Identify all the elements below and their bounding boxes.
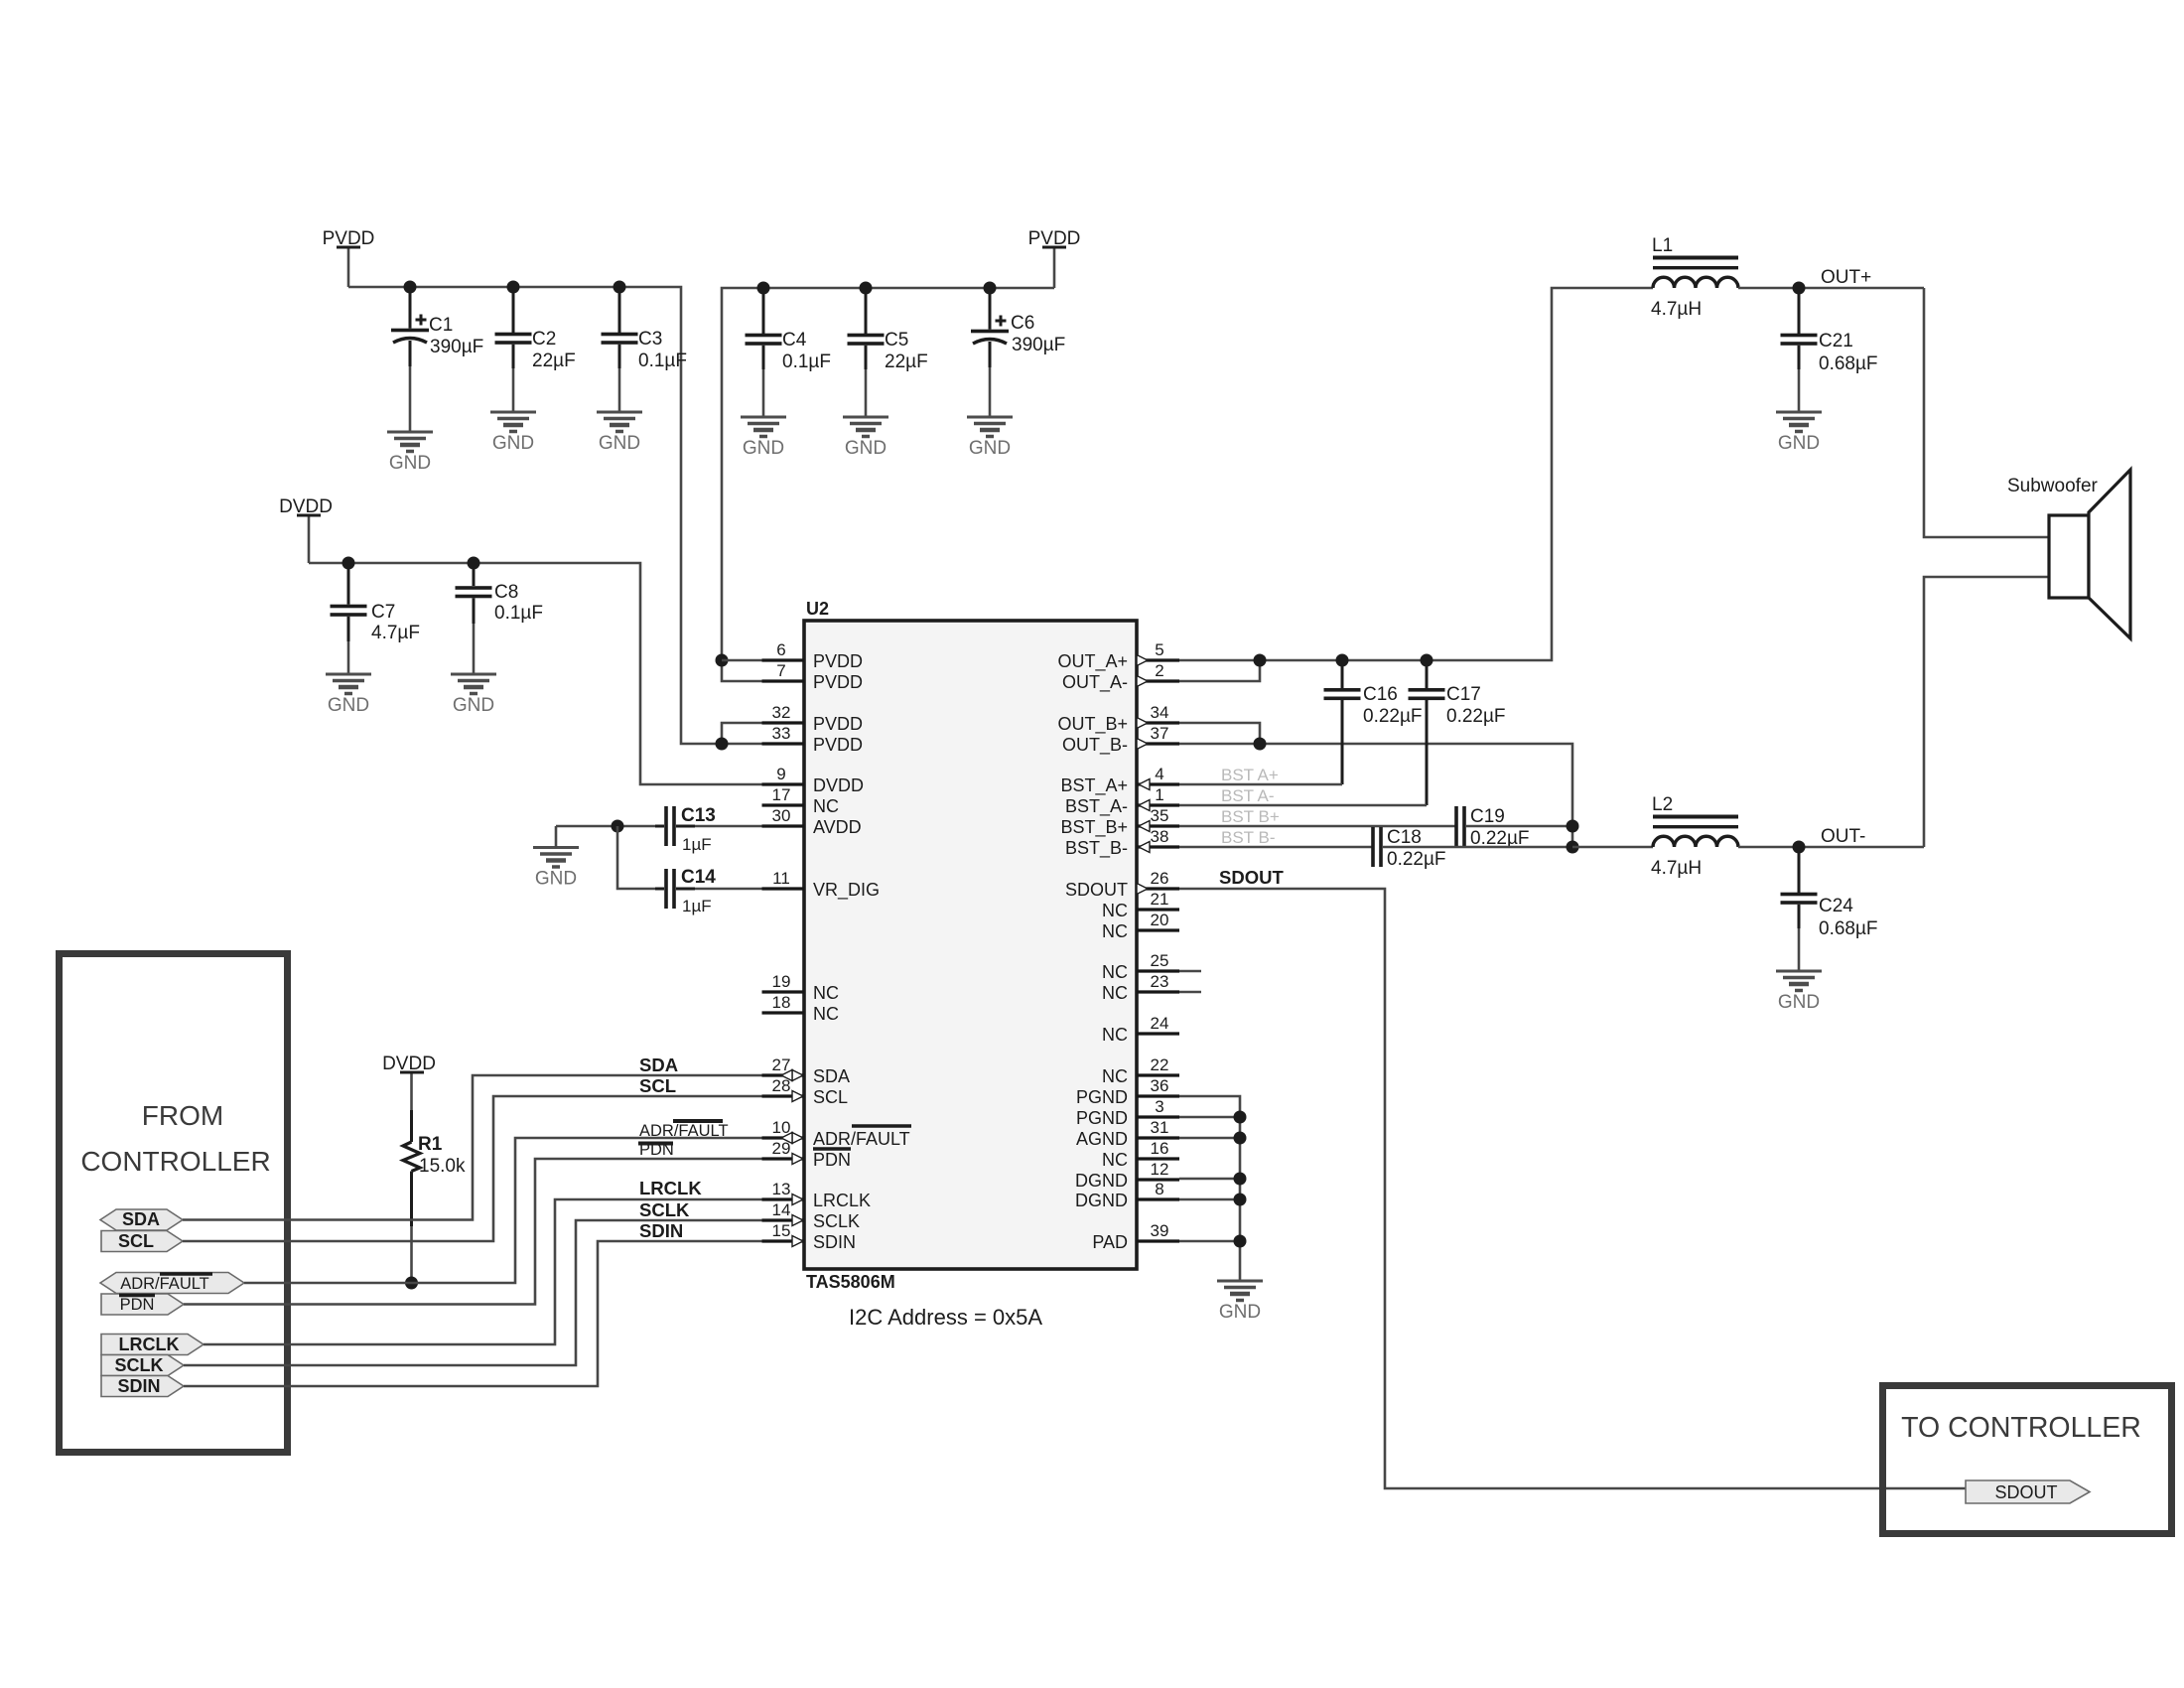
- svg-text:PDN: PDN: [120, 1296, 155, 1314]
- svg-text:7: 7: [776, 661, 785, 680]
- svg-text:C18: C18: [1387, 827, 1422, 848]
- svg-text:LRCLK: LRCLK: [813, 1191, 871, 1210]
- svg-text:22µF: 22µF: [885, 352, 928, 372]
- svg-text:35: 35: [1151, 806, 1169, 825]
- wire OUT_A- up: [1179, 660, 1260, 681]
- svg-text:13: 13: [772, 1180, 791, 1198]
- svg-text:9: 9: [776, 765, 785, 783]
- junction OUT_A at pin2: [1254, 654, 1267, 667]
- wire C14 to pin 11: [695, 888, 762, 891]
- wire PDN: [184, 1159, 792, 1305]
- svg-text:0.1µF: 0.1µF: [638, 351, 687, 371]
- label PDN: [638, 1141, 674, 1159]
- svg-text:GND: GND: [1778, 992, 1820, 1013]
- junction DVDD bus at C8: [468, 557, 480, 570]
- svg-text:U2: U2: [806, 599, 829, 619]
- label OUT+: [1821, 267, 1871, 288]
- svg-text:SCLK: SCLK: [639, 1199, 690, 1220]
- pin 5 OUT_A+ (right): [1057, 640, 1179, 672]
- box TO CONTROLLER: [1883, 1386, 2172, 1534]
- ground under C24: [1776, 971, 1822, 1013]
- svg-text:PVDD: PVDD: [813, 651, 863, 671]
- junction on PVDD bus 2 at C6: [984, 282, 997, 295]
- pin 10 ADR/FAULT (left): [762, 1118, 912, 1149]
- svg-text:DVDD: DVDD: [813, 775, 864, 795]
- svg-text:25: 25: [1151, 951, 1169, 970]
- ground under C5: [843, 417, 888, 459]
- net flag SDIN: [101, 1376, 184, 1397]
- net flag SDOUT (to controller): [1966, 1480, 2090, 1503]
- pin 30 AVDD (left): [762, 806, 862, 837]
- capacitor C4 0.1uF: [746, 288, 831, 417]
- svg-text:NC: NC: [813, 796, 839, 816]
- wire pin6 PVDD: [722, 659, 762, 662]
- net flag SCLK: [101, 1355, 184, 1376]
- svg-text:L1: L1: [1652, 235, 1673, 256]
- svg-text:33: 33: [772, 724, 791, 743]
- svg-text:BST B-: BST B-: [1221, 828, 1275, 847]
- svg-text:GND: GND: [1778, 433, 1820, 454]
- svg-text:3: 3: [1155, 1097, 1163, 1116]
- svg-text:C8: C8: [494, 582, 518, 603]
- svg-text:BST_B+: BST_B+: [1060, 817, 1128, 838]
- svg-text:BST A-: BST A-: [1221, 786, 1275, 805]
- pin 7 PVDD (left): [762, 661, 864, 692]
- svg-text:SDOUT: SDOUT: [1219, 867, 1284, 888]
- svg-text:AGND: AGND: [1076, 1129, 1128, 1149]
- svg-text:LRCLK: LRCLK: [639, 1178, 702, 1198]
- wire SCLK: [184, 1220, 792, 1365]
- pin 38 BST_B- (right): [1065, 827, 1179, 859]
- pin 16 NC (right): [1102, 1139, 1179, 1170]
- svg-text:C1: C1: [429, 315, 453, 336]
- svg-text:30: 30: [772, 806, 791, 825]
- svg-text:ADR/FAULT: ADR/FAULT: [639, 1122, 729, 1140]
- svg-text:NC: NC: [1102, 921, 1128, 941]
- svg-text:PAD: PAD: [1092, 1232, 1128, 1252]
- ground under C21: [1776, 412, 1822, 454]
- label SDOUT: [1219, 867, 1284, 888]
- svg-text:NC: NC: [1102, 962, 1128, 982]
- pin 3 PGND (right): [1076, 1097, 1179, 1128]
- wire OUT+ to subwoofer: [1924, 288, 2049, 537]
- pin 35 BST_B+ (right): [1060, 806, 1179, 838]
- svg-text:38: 38: [1151, 827, 1169, 846]
- resistor R1 15.0k: [403, 1110, 466, 1226]
- pin 36 PGND (right): [1076, 1076, 1179, 1107]
- pin 20 NC (right): [1102, 911, 1179, 941]
- pin 4 BST_A+ (right): [1060, 765, 1179, 796]
- svg-text:OUT+: OUT+: [1821, 267, 1871, 288]
- pin 33 PVDD (left): [762, 724, 864, 755]
- pin 18 NC (left): [762, 993, 840, 1024]
- svg-text:6: 6: [776, 640, 785, 659]
- pin 23 NC (right): [1102, 972, 1201, 1003]
- capacitor C1 390uF (polarized): [391, 287, 483, 432]
- junction on PVDD bus 2 at C5: [860, 282, 873, 295]
- svg-text:SCLK: SCLK: [115, 1355, 164, 1375]
- svg-text:GND: GND: [535, 869, 577, 890]
- pin 31 AGND (right): [1076, 1118, 1179, 1149]
- svg-text:1µF: 1µF: [682, 835, 712, 854]
- svg-text:PGND: PGND: [1076, 1108, 1128, 1128]
- ground under C7: [326, 674, 371, 716]
- capacitor C5 22uF: [848, 288, 928, 417]
- wire OUT_B- net: [1179, 744, 1572, 847]
- ground under C6: [967, 417, 1013, 459]
- svg-text:ADR/FAULT: ADR/FAULT: [120, 1275, 209, 1293]
- capacitor C16 0.22uF: [1324, 660, 1423, 784]
- svg-text:C2: C2: [532, 329, 556, 350]
- svg-text:NC: NC: [1102, 983, 1128, 1003]
- pin 6 PVDD (left): [762, 640, 864, 671]
- junction on PVDD bus 2 at C4: [757, 282, 770, 295]
- ground under C1: [387, 432, 433, 474]
- svg-text:4.7µF: 4.7µF: [371, 623, 420, 643]
- svg-text:23: 23: [1151, 972, 1169, 991]
- junction PAD pin39: [1234, 1235, 1247, 1248]
- capacitor C18 0.22uF: [1371, 827, 1445, 870]
- svg-text:GND: GND: [453, 695, 494, 716]
- pin 8 DGND (right): [1075, 1180, 1179, 1210]
- svg-text:39: 39: [1151, 1221, 1169, 1240]
- svg-text:NC: NC: [813, 983, 839, 1003]
- svg-text:C19: C19: [1470, 806, 1505, 827]
- capacitor C17 0.22uF: [1409, 660, 1506, 805]
- svg-text:21: 21: [1151, 890, 1169, 909]
- wire L1 to OUT+: [1738, 287, 1924, 290]
- svg-text:SDIN: SDIN: [639, 1220, 683, 1241]
- pin 34 OUT_B+ (right): [1057, 703, 1179, 735]
- svg-text:BST A+: BST A+: [1221, 766, 1279, 784]
- net flag PDN: [101, 1294, 184, 1315]
- wire C16 to BST_A+ pin4: [1179, 783, 1342, 786]
- wire pin32 PVDD drop: [722, 723, 762, 744]
- label BST_B+ (gray): [1221, 807, 1280, 826]
- svg-text:2: 2: [1155, 661, 1163, 680]
- wire C13 to pin 30: [695, 825, 762, 828]
- svg-text:0.22µF: 0.22µF: [1387, 849, 1446, 870]
- ground for PGND bus: [1217, 1281, 1263, 1323]
- svg-text:12: 12: [1151, 1160, 1169, 1179]
- svg-text:CONTROLLER: CONTROLLER: [80, 1146, 270, 1177]
- svg-text:C4: C4: [782, 330, 807, 351]
- svg-text:15: 15: [772, 1221, 791, 1240]
- junction DVDD bus at C7: [342, 557, 355, 570]
- pin 32 PVDD (left): [762, 703, 864, 734]
- junction OUT_B at pin34: [1254, 738, 1267, 751]
- svg-text:GND: GND: [389, 453, 431, 474]
- ground at C13/C14: [533, 826, 579, 890]
- svg-text:SCL: SCL: [813, 1087, 848, 1107]
- svg-text:C3: C3: [638, 329, 662, 350]
- wire BST_B- pin38 to C18: [1179, 846, 1372, 849]
- svg-text:C7: C7: [371, 602, 395, 623]
- junction DGND pin12: [1234, 1173, 1247, 1186]
- svg-text:PVDD: PVDD: [813, 714, 863, 734]
- svg-text:C5: C5: [885, 330, 908, 351]
- svg-text:OUT-: OUT-: [1821, 826, 1865, 847]
- svg-text:0.1µF: 0.1µF: [494, 603, 543, 624]
- wire R1 to ADR/FAULT net: [410, 1226, 413, 1283]
- svg-text:0.1µF: 0.1µF: [782, 352, 831, 372]
- wire pin39 PAD: [1179, 1240, 1240, 1243]
- power symbol PVDD (left rail): [323, 228, 375, 287]
- junction R1 on ADR/FAULT wire: [405, 1277, 418, 1290]
- label SCL: [639, 1075, 676, 1096]
- pin 2 OUT_A- (right): [1062, 661, 1179, 693]
- svg-text:18: 18: [772, 993, 791, 1012]
- svg-text:I2C Address = 0x5A: I2C Address = 0x5A: [849, 1305, 1042, 1330]
- power symbol PVDD (right rail): [1028, 228, 1081, 288]
- svg-text:20: 20: [1151, 911, 1169, 929]
- svg-text:SDA: SDA: [813, 1066, 850, 1086]
- capacitor C19 0.22uF: [1454, 806, 1529, 849]
- svg-text:BST_A+: BST_A+: [1060, 775, 1128, 796]
- svg-text:GND: GND: [969, 438, 1011, 459]
- inductor L2 4.7uH: [1651, 794, 1738, 879]
- svg-text:0.68µF: 0.68µF: [1819, 918, 1878, 939]
- junction OUT_A at C17: [1421, 654, 1433, 667]
- pin 19 NC (left): [762, 972, 840, 1003]
- wire pin31 AGND: [1179, 1137, 1240, 1140]
- wire OUT- to subwoofer: [1924, 577, 2049, 847]
- svg-text:ADR/FAULT: ADR/FAULT: [813, 1129, 910, 1149]
- wire L2 to OUT-: [1738, 846, 1924, 849]
- pin 25 NC (right): [1102, 951, 1201, 982]
- svg-text:DGND: DGND: [1075, 1191, 1128, 1210]
- pin 11 VR_DIG (left): [762, 869, 881, 901]
- wire OUT_A+ net: [1179, 288, 1653, 660]
- svg-text:SDOUT: SDOUT: [1995, 1482, 2058, 1502]
- svg-text:SDIN: SDIN: [117, 1376, 160, 1396]
- junction PVDD drop at pin 33 row: [716, 738, 729, 751]
- wire ADR/FAULT: [244, 1138, 792, 1283]
- svg-text:PVDD: PVDD: [813, 672, 863, 692]
- capacitor C24 0.68uF: [1781, 847, 1878, 971]
- junction PVDD drop at pin 6 row: [716, 654, 729, 667]
- pin 27 SDA (left): [762, 1055, 851, 1086]
- svg-text:C21: C21: [1819, 331, 1853, 352]
- svg-text:GND: GND: [743, 438, 784, 459]
- net flag SDA: [100, 1209, 183, 1230]
- label LRCLK: [639, 1178, 702, 1198]
- svg-text:31: 31: [1151, 1118, 1169, 1137]
- svg-text:SDA: SDA: [122, 1209, 160, 1229]
- wire SCL: [183, 1096, 792, 1241]
- wire SDOUT net: [1179, 889, 1966, 1488]
- label SDIN: [639, 1220, 683, 1241]
- svg-text:OUT_B+: OUT_B+: [1057, 714, 1128, 735]
- svg-text:14: 14: [772, 1200, 791, 1219]
- power symbol DVDD (rail): [279, 496, 333, 563]
- svg-text:PGND: PGND: [1076, 1087, 1128, 1107]
- svg-text:4: 4: [1155, 765, 1163, 783]
- svg-text:0.22µF: 0.22µF: [1363, 706, 1423, 727]
- svg-text:11: 11: [772, 869, 790, 888]
- inductor L1 4.7uH: [1651, 235, 1738, 320]
- svg-text:0.22µF: 0.22µF: [1446, 706, 1506, 727]
- wire BST_B+ pin35 to C19: [1179, 825, 1455, 828]
- capacitor C7 4.7uF: [331, 563, 420, 674]
- pin 13 LRCLK (left): [762, 1180, 872, 1210]
- pin 22 NC (right): [1102, 1055, 1179, 1086]
- svg-text:Subwoofer: Subwoofer: [2007, 476, 2099, 496]
- svg-text:SCL: SCL: [118, 1231, 154, 1251]
- svg-text:L2: L2: [1652, 794, 1673, 815]
- wire DVDD bus: [309, 563, 762, 784]
- label BST_A- (gray): [1221, 786, 1275, 805]
- ground under C4: [741, 417, 786, 459]
- wire PVDD bus 1: [348, 287, 762, 744]
- svg-text:0.68µF: 0.68µF: [1819, 353, 1878, 374]
- svg-text:C24: C24: [1819, 896, 1853, 916]
- svg-text:15.0k: 15.0k: [419, 1156, 466, 1177]
- junction C18/OUT_B- (L2 input): [1567, 841, 1579, 854]
- svg-text:390µF: 390µF: [430, 337, 483, 357]
- svg-text:22µF: 22µF: [532, 351, 576, 371]
- svg-text:C17: C17: [1446, 684, 1481, 705]
- wire LRCLK: [204, 1199, 792, 1344]
- svg-text:SDA: SDA: [639, 1055, 678, 1075]
- wire OUT_B- to L2: [1572, 846, 1653, 849]
- wire PGND bus: [1179, 1096, 1240, 1281]
- svg-text:NC: NC: [1102, 1150, 1128, 1170]
- wire SDIN: [184, 1241, 792, 1386]
- ground under C8: [451, 674, 496, 716]
- svg-text:GND: GND: [845, 438, 887, 459]
- pin 39 PAD (right): [1092, 1221, 1179, 1252]
- wire AVDD to C14: [617, 826, 655, 889]
- wire C18 to OUT_B-: [1382, 846, 1572, 849]
- wire pin3 PGND: [1179, 1116, 1240, 1119]
- wire PVDD bus 2: [722, 288, 1054, 681]
- svg-text:28: 28: [772, 1076, 791, 1095]
- wire C19 to OUT_B-: [1465, 825, 1572, 828]
- svg-text:BST_B-: BST_B-: [1065, 838, 1128, 859]
- svg-text:SCL: SCL: [639, 1075, 676, 1096]
- junction OUT- at C24: [1793, 841, 1806, 854]
- svg-text:OUT_B-: OUT_B-: [1062, 735, 1128, 756]
- svg-text:C6: C6: [1011, 313, 1034, 334]
- pin 26 SDOUT (right): [1065, 869, 1179, 900]
- svg-text:8: 8: [1155, 1180, 1163, 1198]
- svg-text:19: 19: [772, 972, 791, 991]
- junction on PVDD bus at C2: [507, 281, 520, 294]
- svg-text:4.7µH: 4.7µH: [1651, 858, 1702, 879]
- svg-text:NC: NC: [1102, 1066, 1128, 1086]
- pin 9 DVDD (left): [762, 765, 865, 795]
- pin 29 PDN (left): [762, 1139, 852, 1170]
- svg-text:C16: C16: [1363, 684, 1398, 705]
- svg-text:PVDD: PVDD: [813, 735, 863, 755]
- svg-text:SDIN: SDIN: [813, 1232, 856, 1252]
- junction C19/OUT_B-: [1567, 820, 1579, 833]
- pin 24 NC (right): [1102, 1014, 1179, 1045]
- svg-text:BST B+: BST B+: [1221, 807, 1280, 826]
- wire AVDD node: [556, 825, 663, 828]
- net flag SCL: [101, 1231, 183, 1252]
- svg-text:OUT_A+: OUT_A+: [1057, 651, 1128, 672]
- svg-text:34: 34: [1151, 703, 1169, 722]
- svg-text:AVDD: AVDD: [813, 817, 862, 837]
- svg-text:NC: NC: [1102, 901, 1128, 920]
- svg-text:C13: C13: [681, 805, 716, 826]
- svg-text:FROM: FROM: [142, 1100, 223, 1131]
- wire C17 to BST_A- pin1: [1179, 804, 1427, 807]
- svg-text:26: 26: [1151, 869, 1169, 888]
- svg-text:22: 22: [1151, 1055, 1169, 1074]
- svg-text:24: 24: [1151, 1014, 1169, 1033]
- svg-text:GND: GND: [328, 695, 369, 716]
- svg-text:36: 36: [1151, 1076, 1169, 1095]
- junction AGND pin31: [1234, 1132, 1247, 1145]
- svg-text:SDOUT: SDOUT: [1065, 880, 1128, 900]
- pin 21 NC (right): [1102, 890, 1179, 920]
- svg-text:SCLK: SCLK: [813, 1211, 860, 1231]
- svg-text:16: 16: [1151, 1139, 1169, 1158]
- ground under C2: [490, 412, 536, 454]
- capacitor C2 22uF: [495, 287, 576, 412]
- box FROM CONTROLLER: [60, 954, 288, 1453]
- svg-text:NC: NC: [813, 1004, 839, 1024]
- svg-text:29: 29: [772, 1139, 791, 1158]
- wire SDA: [183, 1075, 792, 1220]
- svg-text:TO CONTROLLER: TO CONTROLLER: [1901, 1412, 2141, 1444]
- net flag LRCLK: [101, 1335, 204, 1355]
- svg-text:32: 32: [772, 703, 791, 722]
- pin 1 BST_A- (right): [1065, 785, 1179, 817]
- svg-text:BST_A-: BST_A-: [1065, 796, 1128, 817]
- capacitor C14 1uF: [655, 867, 716, 915]
- svg-text:GND: GND: [1219, 1302, 1261, 1323]
- junction on PVDD bus at C1: [404, 281, 417, 294]
- junction OUT_A at C16: [1336, 654, 1349, 667]
- junction DGND pin8: [1234, 1194, 1247, 1206]
- capacitor C13 1uF: [655, 805, 716, 854]
- svg-text:390µF: 390µF: [1012, 335, 1065, 355]
- svg-text:37: 37: [1151, 724, 1169, 743]
- ground under C3: [597, 412, 642, 454]
- label SCLK: [639, 1199, 690, 1220]
- wire OUT_B+ down: [1179, 723, 1260, 744]
- junction OUT+ at C21: [1793, 282, 1806, 295]
- junction AVDD node: [612, 820, 624, 833]
- svg-text:LRCLK: LRCLK: [119, 1335, 180, 1354]
- svg-text:R1: R1: [418, 1134, 443, 1155]
- svg-text:1µF: 1µF: [682, 897, 712, 915]
- capacitor C8 0.1uF: [456, 563, 543, 674]
- label BST_B- (gray): [1221, 828, 1275, 847]
- label SDA: [639, 1055, 678, 1075]
- wire pin8 DGND: [1179, 1198, 1240, 1201]
- svg-text:C14: C14: [681, 867, 716, 888]
- svg-text:4.7µH: 4.7µH: [1651, 299, 1702, 320]
- pin 15 SDIN (left): [762, 1221, 857, 1252]
- svg-text:17: 17: [772, 785, 791, 804]
- op-amp U2 TAS5806M body: [804, 599, 1137, 1330]
- svg-text:OUT_A-: OUT_A-: [1062, 672, 1128, 693]
- svg-text:GND: GND: [599, 433, 640, 454]
- pin 37 OUT_B- (right): [1062, 724, 1179, 756]
- wire pin12 DGND: [1179, 1178, 1240, 1181]
- speaker Subwoofer: [2007, 470, 2130, 638]
- svg-text:TAS5806M: TAS5806M: [806, 1272, 895, 1292]
- label OUT-: [1821, 826, 1865, 847]
- svg-text:PDN: PDN: [813, 1150, 851, 1170]
- label BST_A+ (gray): [1221, 766, 1279, 784]
- svg-text:1: 1: [1155, 785, 1163, 804]
